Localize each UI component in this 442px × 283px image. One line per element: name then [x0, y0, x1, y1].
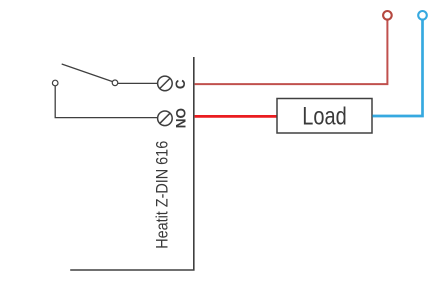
supply terminal L (dark red circle) [383, 11, 392, 20]
device enclosure Heatit Z-DIN 616 [70, 57, 194, 270]
wire Load to neutral terminal (blue) [373, 20, 423, 117]
wire switch pole down to NO row [55, 86, 157, 118]
terminal C screw symbol [158, 76, 173, 91]
svg-text:Heatit Z-DIN 616: Heatit Z-DIN 616 [153, 141, 172, 249]
load box [277, 99, 372, 134]
svg-text:NO: NO [173, 108, 188, 128]
svg-text:C: C [173, 79, 188, 89]
switch S1 blade [62, 64, 112, 82]
terminal NO screw symbol [158, 111, 173, 126]
switch S1 throw contact [112, 80, 118, 86]
wire switch throw to terminal C [118, 82, 158, 84]
wire NO to Load (bright red) [195, 115, 278, 118]
wire C to supply terminal (dark red) [195, 20, 388, 85]
switch S1 pole contact [52, 80, 58, 86]
svg-text:Load: Load [302, 103, 347, 131]
neutral terminal N (blue circle) [418, 11, 427, 20]
